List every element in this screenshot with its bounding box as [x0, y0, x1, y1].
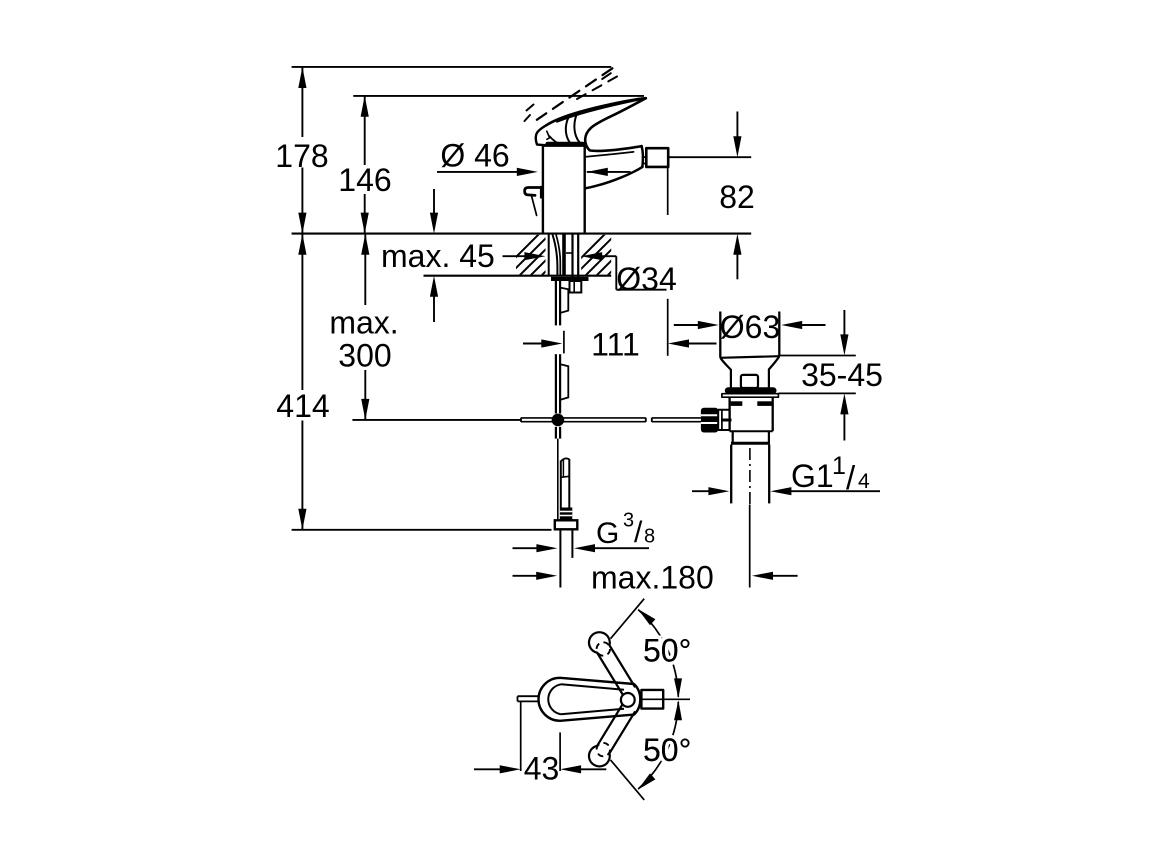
arrow 35-45 top down	[840, 334, 848, 355]
spout tip face	[642, 146, 643, 167]
plan handle end circle	[621, 693, 635, 707]
extension line 111 right / D63	[667, 299, 669, 356]
faucet body top thick band	[548, 142, 584, 146]
ball rod connector	[718, 410, 729, 430]
pop-up knob	[525, 188, 542, 196]
plan aerator block	[641, 690, 663, 709]
lever saddle curve 2	[574, 113, 583, 145]
arrow 178 bottom down	[298, 213, 306, 234]
mounting shank in deck	[549, 234, 589, 293]
drain cup left wall	[719, 312, 721, 358]
pipe clip flag 2	[561, 364, 569, 399]
arrow 111 left	[541, 339, 562, 347]
extension line spout outlet	[667, 167, 669, 215]
pipe below ball	[555, 427, 557, 439]
arc arrow upper diagonal	[638, 609, 656, 625]
dimension max300 vertical line	[364, 234, 366, 305]
dimension D63 line	[674, 324, 700, 326]
drain collar	[732, 431, 734, 444]
arrow 35-45 bottom up	[840, 393, 848, 414]
50deg diagonal lower	[611, 760, 645, 800]
arrow D63 left	[698, 321, 719, 329]
arrow max45 down at deck top	[430, 213, 438, 234]
G3/8 nut	[555, 520, 578, 529]
ball rod pin	[721, 419, 732, 422]
drain cup right wall	[778, 312, 780, 357]
drain body right wall	[772, 397, 774, 431]
supply hose	[560, 461, 562, 508]
plan lower swung lever	[589, 704, 635, 767]
faucet body right edge	[584, 147, 586, 233]
svg-text:max. 45: max. 45	[381, 238, 495, 274]
arrow D34 left	[524, 252, 545, 260]
rod left segment	[521, 417, 646, 419]
pull rod centerline	[557, 439, 559, 521]
svg-text:178: 178	[275, 138, 328, 174]
dimension D46 line	[437, 171, 519, 173]
svg-text:146: 146	[338, 162, 391, 198]
supply pipe	[552, 281, 578, 588]
lever blade top edge	[546, 98, 645, 125]
svg-text:Ø63: Ø63	[720, 309, 780, 345]
drain flange	[725, 387, 777, 394]
svg-text:82: 82	[719, 179, 755, 215]
svg-text:8: 8	[644, 526, 655, 548]
wire deck top line	[292, 233, 752, 235]
arrow 111 right	[668, 339, 689, 347]
washer below deck	[551, 277, 589, 281]
lever nose	[536, 125, 547, 145]
dimension max45 arrow stems	[433, 189, 435, 215]
shank hose curve 2	[556, 235, 560, 277]
svg-text:414: 414	[276, 388, 329, 424]
arrow 43 left	[500, 765, 521, 773]
drain body step	[730, 430, 773, 432]
arrow 43 right	[560, 765, 581, 773]
svg-text:50°: 50°	[643, 732, 691, 768]
svg-text:G1: G1	[791, 458, 834, 494]
aerator block	[646, 148, 668, 167]
wire bottom reference line (414 lower)	[292, 529, 552, 531]
arrow 146 top up	[361, 96, 369, 117]
pipe clip flag 1	[561, 288, 569, 313]
wire deck bottom line	[424, 275, 612, 277]
ball rod knurled nut	[701, 408, 718, 433]
arrowheads	[298, 67, 848, 774]
arrow G3/8 left	[536, 544, 557, 552]
arrow max180 left	[536, 572, 557, 580]
extension line 43 right	[559, 732, 561, 771]
arrow D63 right	[781, 321, 802, 329]
tube below nut	[559, 529, 561, 587]
raised lever tip dash	[602, 73, 611, 79]
drain tailpipe	[730, 445, 732, 504]
arrow 146 bottom down	[361, 213, 369, 234]
drain knob	[741, 375, 758, 388]
plan upper lever dashed circle	[597, 642, 610, 655]
dimension 43 line	[474, 768, 501, 770]
svg-text:/: /	[846, 459, 856, 496]
shank right tube lines	[571, 234, 573, 278]
dimension G3/8 line	[513, 547, 538, 549]
lever saddle curve 1	[566, 115, 573, 145]
raised lever dashed line B	[577, 77, 617, 100]
shank stud	[562, 234, 566, 276]
svg-text:4: 4	[858, 470, 870, 493]
arc arrow upper axis	[674, 678, 682, 698]
top plan view	[518, 599, 691, 800]
aerator connector	[643, 157, 646, 163]
drain overflow slot left	[731, 401, 743, 406]
dimension 146 vertical line	[364, 96, 366, 165]
wire top reference line (178 upper)	[292, 66, 612, 68]
50deg arc lower	[638, 702, 678, 789]
plan upper swung lever	[589, 632, 635, 695]
arc arrow lower diagonal	[638, 773, 656, 789]
reference line 82 top	[668, 156, 751, 158]
arrow 82 top down	[733, 136, 741, 157]
svg-text:50°: 50°	[643, 633, 691, 669]
faucet front view	[525, 68, 669, 232]
svg-text:3: 3	[623, 510, 634, 532]
svg-text:35-45: 35-45	[801, 357, 883, 393]
drain centerline dash-dot	[749, 448, 751, 504]
svg-text:max.: max.	[329, 305, 398, 341]
G3/8 ferrule	[560, 508, 573, 520]
svg-text:43: 43	[524, 751, 560, 787]
dimension 82 vertical line	[736, 112, 738, 138]
wire 146 upper reference line	[353, 95, 644, 97]
plan pop-up pin	[518, 695, 539, 697]
raised lever dashed line A	[537, 68, 613, 120]
arrow 414 top up	[298, 234, 306, 255]
faucet body top line	[543, 145, 585, 147]
plan axis line	[641, 698, 690, 700]
wire rod level reference line (max300 lower)	[352, 419, 521, 421]
dimension G1 1/4 line	[692, 490, 710, 492]
drain overflow slot right	[757, 401, 772, 406]
drain body left wall	[728, 397, 730, 431]
arrow D46 left	[517, 168, 538, 176]
spout inner line	[585, 152, 634, 157]
svg-text:/: /	[634, 516, 643, 549]
arrow max300 top up	[361, 234, 369, 255]
faucet body left edge	[542, 145, 544, 232]
svg-text:300: 300	[338, 338, 391, 374]
arrow 414 bottom down	[298, 509, 306, 530]
arrow G1 1/4 left	[708, 487, 729, 495]
plan lower lever dashed circle	[597, 743, 610, 756]
drain flange lip	[722, 394, 779, 398]
shank hose curve 1	[553, 235, 558, 277]
arrow max180 right	[752, 572, 773, 580]
pipe upper segment	[555, 281, 557, 325]
svg-text:Ø34: Ø34	[616, 261, 676, 297]
drain pop-up waste assembly	[701, 312, 779, 505]
raised lever nose dashes	[527, 105, 534, 111]
svg-text:1: 1	[832, 452, 846, 480]
hatching deck cross-section	[496, 233, 650, 277]
extension line 43 left	[520, 702, 522, 771]
dimension 111 line	[523, 343, 543, 345]
reference line 35-45 bottom	[778, 392, 855, 394]
dimension 178 vertical line	[301, 67, 303, 137]
spout bottom edge	[585, 167, 643, 189]
shank left wall	[548, 234, 550, 276]
extension line drain centerline lower	[749, 505, 751, 588]
rod right segment	[652, 417, 701, 419]
svg-text:111: 111	[591, 327, 640, 363]
horizontal pop-up rod	[521, 418, 701, 422]
dimension max180 line	[513, 575, 538, 577]
arrow G3/8 right	[574, 544, 595, 552]
arrow max300 bottom down	[361, 399, 369, 420]
pivot ball	[552, 414, 565, 427]
reference line 35-45 top	[779, 355, 855, 357]
lever blade under edge and spout top	[585, 98, 646, 151]
svg-text:max.180: max.180	[591, 560, 714, 596]
50deg diagonal upper	[611, 599, 645, 639]
drain taper left	[720, 358, 731, 388]
mounting nut	[570, 281, 582, 293]
lever dome arc	[550, 136, 563, 145]
lever blade inner top line	[557, 99, 644, 122]
dimension 414 vertical line	[301, 234, 303, 390]
shank tick	[566, 252, 572, 254]
arrow D46 right	[587, 168, 608, 176]
arrow max45 up at deck bottom	[430, 276, 438, 297]
arrow G1 1/4 right	[770, 487, 791, 495]
dimension 35-45 vertical line	[843, 310, 845, 335]
arrow 82 bottom up	[733, 234, 741, 255]
50deg arc upper	[638, 610, 678, 697]
arc arrow lower axis	[674, 700, 682, 720]
svg-text:G: G	[596, 517, 619, 550]
extension line 111 left	[563, 331, 565, 354]
drain taper right	[769, 356, 779, 387]
lever nose inner stroke	[547, 131, 550, 139]
dimension D34 leader	[503, 255, 527, 257]
svg-text:Ø 46: Ø 46	[440, 138, 509, 174]
arrow 178 top up	[298, 67, 306, 88]
pop-up rod diagonal	[532, 197, 537, 216]
arrow D34 right	[581, 252, 602, 260]
plan body inner top line	[548, 684, 561, 714]
plan body outer outline	[539, 678, 641, 721]
pipe middle segment	[555, 354, 557, 413]
drain cup bottom	[720, 356, 779, 358]
